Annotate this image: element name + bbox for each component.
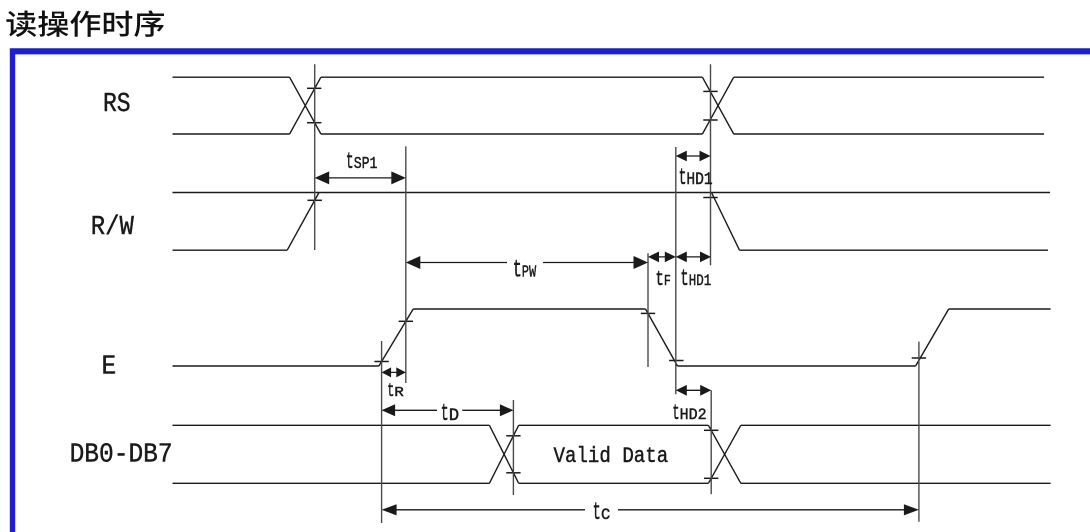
extension line at RS right transition xyxy=(710,64,712,265)
E rising edge 1 xyxy=(379,309,413,366)
dimension arrow tc xyxy=(384,509,585,511)
svg-text:F: F xyxy=(664,273,671,290)
dimension arrow tF xyxy=(650,256,674,258)
R/W low rail right xyxy=(740,249,1049,251)
R/W high rail xyxy=(173,192,1051,194)
DB crossover 1 ticks xyxy=(506,435,520,437)
dimension arrow tHD1 bottom xyxy=(678,256,709,258)
svg-text:t: t xyxy=(680,266,689,292)
DB crossover 1 xyxy=(489,425,518,483)
R/W edge ticks xyxy=(308,199,322,201)
RS crossover 2 ticks xyxy=(703,90,717,92)
extension line at DB right transition xyxy=(710,390,712,494)
E edge ticks xyxy=(374,361,388,363)
E low rail left xyxy=(173,365,379,367)
extension line at E right rise xyxy=(918,342,920,522)
svg-text:t: t xyxy=(679,165,687,191)
RS bus rails left segment xyxy=(173,76,290,78)
dimension arrow tHD1 top xyxy=(678,155,709,157)
RS crossover 1 ticks xyxy=(307,87,321,89)
dimension arrow tPW xyxy=(408,262,507,264)
dimension arrow tSP1 xyxy=(317,177,404,179)
DB crossover 2 ticks xyxy=(704,429,718,431)
svg-text:t: t xyxy=(655,268,664,292)
svg-text:t: t xyxy=(593,498,601,527)
svg-text:HD1: HD1 xyxy=(689,272,712,290)
RS bus rails right segment xyxy=(734,76,1044,78)
extension line at E rise start xyxy=(381,341,383,523)
svg-text:c: c xyxy=(601,503,611,525)
E high rail 2 xyxy=(949,308,1051,310)
svg-text:t: t xyxy=(441,401,449,428)
dimension arrow tD xyxy=(384,409,437,411)
svg-text:R/W: R/W xyxy=(91,213,135,243)
E falling edge xyxy=(646,309,678,366)
svg-text:HD1: HD1 xyxy=(686,170,712,190)
DB bus rails right segment xyxy=(741,424,1051,426)
svg-text:HD2: HD2 xyxy=(680,406,707,424)
svg-text:SP1: SP1 xyxy=(354,154,378,173)
svg-text:PW: PW xyxy=(522,263,537,282)
dimension arrow tHD2 xyxy=(678,389,709,391)
R/W falling edge xyxy=(712,193,740,251)
extension line at DB valid start xyxy=(512,400,514,495)
RS crossover 2 xyxy=(702,77,733,134)
R/W low rail left xyxy=(173,249,288,251)
extension line at E fall end xyxy=(675,147,677,394)
svg-text:E: E xyxy=(102,352,117,382)
extension line at E fall start xyxy=(647,253,649,367)
svg-text:Valid Data: Valid Data xyxy=(554,443,669,469)
E high rail 1 xyxy=(413,308,645,310)
extension line at RS left transition xyxy=(314,64,316,250)
extension line at E rise end xyxy=(405,146,407,383)
dimension arrow tR xyxy=(384,371,404,373)
RS crossover 1 xyxy=(290,77,321,134)
svg-text:DB0-DB7: DB0-DB7 xyxy=(70,440,173,470)
DB bus rails middle segment xyxy=(519,424,709,426)
svg-text:t: t xyxy=(387,380,394,402)
RS bus rails middle segment xyxy=(321,76,703,78)
svg-text:D: D xyxy=(449,406,459,426)
E rising edge 2 xyxy=(916,309,949,366)
svg-text:t: t xyxy=(672,401,679,426)
R/W rising edge xyxy=(287,193,319,251)
svg-text:R: R xyxy=(394,385,404,401)
svg-text:t: t xyxy=(513,255,522,284)
E low rail middle xyxy=(678,365,916,367)
DB crossover 2 xyxy=(708,425,740,483)
svg-text:t: t xyxy=(346,149,354,175)
title 读操作时序 xyxy=(6,10,164,37)
DB bus rails left segment xyxy=(173,424,490,426)
svg-text:RS: RS xyxy=(103,90,131,120)
